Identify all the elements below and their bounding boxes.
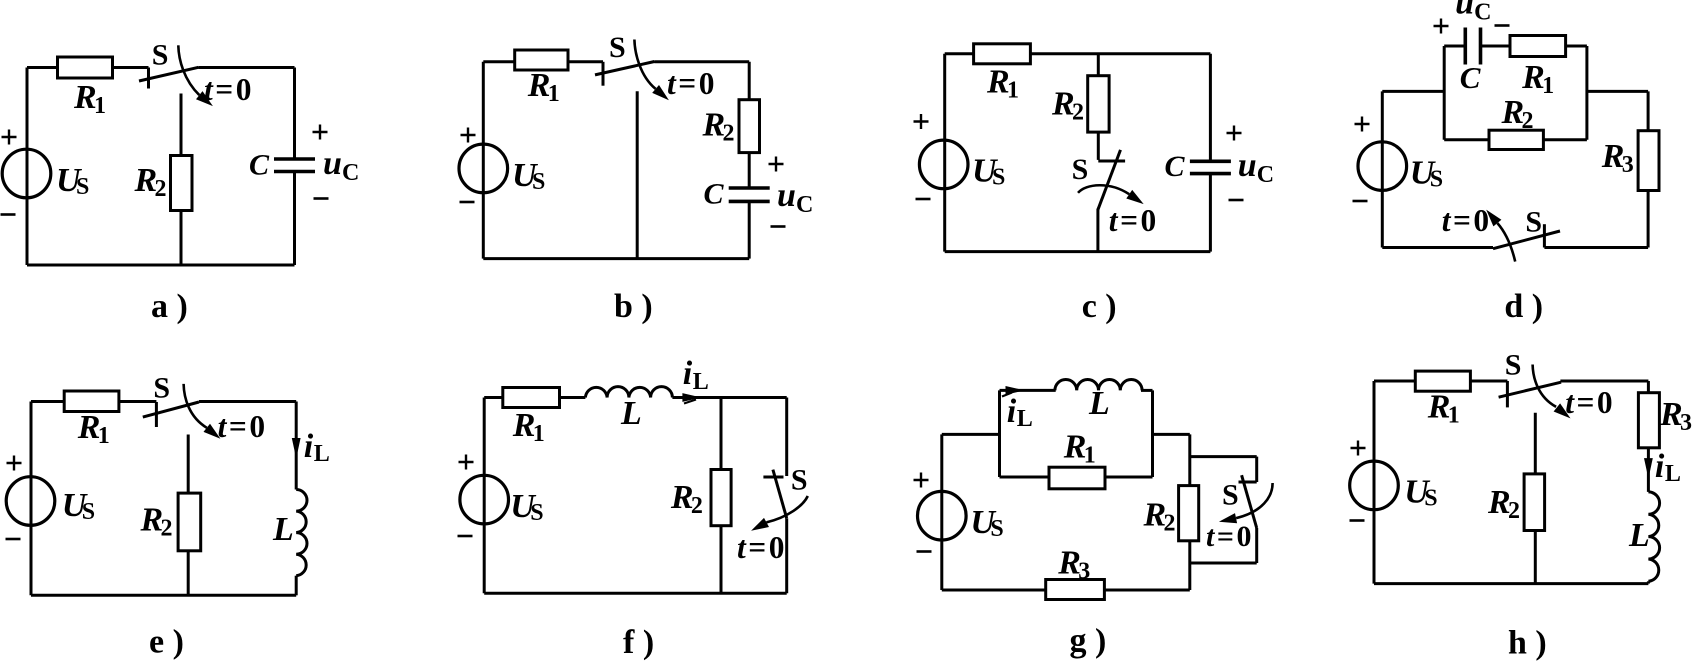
voltage source US xyxy=(919,140,968,189)
svg-text:S: S xyxy=(992,165,1005,191)
switch S blade xyxy=(1493,231,1560,249)
svg-text:C: C xyxy=(1474,0,1491,25)
voltage source US xyxy=(918,491,967,540)
svg-text:S: S xyxy=(1424,486,1437,512)
svg-text:L: L xyxy=(272,511,294,548)
resistor R2 xyxy=(1179,486,1199,541)
current arrow iL xyxy=(682,393,701,402)
svg-text:C: C xyxy=(249,148,270,181)
voltage source US xyxy=(1350,461,1399,510)
switch S actuation arrow xyxy=(766,496,807,522)
wire xyxy=(1444,45,1465,48)
svg-text:1: 1 xyxy=(1542,73,1554,99)
wire xyxy=(293,172,296,266)
svg-text:c ): c ) xyxy=(1082,288,1117,325)
wire xyxy=(482,62,485,259)
wire xyxy=(483,60,603,63)
wire xyxy=(942,589,1190,592)
switch S contact xyxy=(763,476,783,479)
minus polarity mark xyxy=(460,201,475,204)
plus polarity mark xyxy=(914,114,929,129)
wire xyxy=(720,398,723,594)
plus polarity mark xyxy=(1351,441,1366,456)
resistor R1 xyxy=(503,388,560,408)
svg-text:1: 1 xyxy=(533,421,545,447)
svg-text:u: u xyxy=(323,145,342,182)
wire xyxy=(785,398,788,477)
wire xyxy=(199,400,296,403)
circuit h xyxy=(1350,349,1693,662)
wire xyxy=(1097,54,1100,160)
wire xyxy=(945,250,1211,253)
wire xyxy=(1209,54,1212,162)
circuit d xyxy=(1353,0,1660,325)
wire xyxy=(1000,476,1153,479)
resistor R3 xyxy=(1638,393,1659,448)
plus polarity mark xyxy=(461,128,476,143)
wire xyxy=(1374,582,1648,585)
switch S contact xyxy=(155,402,158,427)
svg-text:L: L xyxy=(620,395,642,432)
svg-text:t=0: t=0 xyxy=(1442,203,1489,238)
svg-text:S: S xyxy=(76,174,89,200)
svg-text:b ): b ) xyxy=(614,288,653,325)
wire xyxy=(998,390,1001,477)
minus polarity mark xyxy=(314,197,329,200)
wire xyxy=(1647,581,1650,583)
switch S actuation arrow xyxy=(1236,483,1273,518)
wire xyxy=(1587,90,1648,93)
inductor L xyxy=(296,490,307,576)
switch S blade xyxy=(139,67,199,81)
wire xyxy=(748,201,751,258)
capacitor C xyxy=(1190,161,1231,173)
minus polarity mark xyxy=(1350,519,1365,522)
resistor R2 xyxy=(1088,76,1109,132)
switch S actuation arrow xyxy=(184,384,207,428)
capacitor C xyxy=(729,188,770,201)
minus polarity mark xyxy=(6,538,21,541)
wire xyxy=(1481,45,1587,48)
wire xyxy=(1374,380,1507,383)
svg-text:1: 1 xyxy=(1448,403,1460,429)
switch S actuation arrow xyxy=(1078,185,1129,194)
svg-text:u: u xyxy=(777,177,796,214)
svg-text:L: L xyxy=(1665,461,1681,487)
minus polarity mark xyxy=(1229,199,1244,202)
svg-text:C: C xyxy=(1257,162,1274,188)
wire xyxy=(1141,389,1153,392)
wire xyxy=(1534,413,1537,584)
plus polarity mark xyxy=(1434,19,1449,34)
resistor R1 xyxy=(1510,36,1566,57)
resistor R1 xyxy=(515,50,568,70)
wire xyxy=(483,398,486,594)
wire xyxy=(1443,46,1446,140)
wire xyxy=(1151,390,1154,477)
wire xyxy=(199,66,295,69)
wire xyxy=(1255,528,1258,563)
wire xyxy=(785,518,788,593)
wire xyxy=(672,396,786,399)
wire xyxy=(1560,380,1648,383)
wire xyxy=(1444,138,1587,141)
circuit f xyxy=(458,355,808,661)
svg-text:S: S xyxy=(82,499,95,525)
minus polarity mark xyxy=(458,535,473,538)
inductor L xyxy=(1648,492,1659,581)
svg-text:1: 1 xyxy=(1007,77,1019,103)
plus polarity mark xyxy=(313,125,328,140)
minus polarity mark xyxy=(916,198,931,201)
resistor R2 xyxy=(739,100,760,153)
inductor L xyxy=(585,387,672,398)
voltage source US xyxy=(6,477,55,526)
svg-text:L: L xyxy=(693,369,709,395)
wire xyxy=(1096,209,1099,252)
plus polarity mark xyxy=(1227,126,1242,141)
svg-text:C: C xyxy=(704,178,725,211)
plus polarity mark xyxy=(1355,117,1370,132)
svg-text:i: i xyxy=(683,355,693,392)
wire xyxy=(748,62,751,188)
circuit e xyxy=(6,372,330,661)
minus polarity mark xyxy=(1353,200,1368,203)
wire xyxy=(1381,91,1384,247)
wire xyxy=(1382,90,1444,93)
resistor R2 xyxy=(178,493,201,551)
resistor R1 xyxy=(1049,467,1105,489)
switch S blade xyxy=(1098,150,1121,210)
switch S contact xyxy=(1543,224,1546,247)
switch S actuation arrow xyxy=(1497,223,1515,262)
svg-text:L: L xyxy=(1628,517,1650,554)
wire xyxy=(1382,246,1493,249)
svg-text:2: 2 xyxy=(161,516,173,542)
voltage source US xyxy=(1358,142,1407,191)
svg-text:g ): g ) xyxy=(1070,623,1107,660)
minus polarity mark xyxy=(1,213,16,216)
resistor R3 xyxy=(1638,131,1659,191)
voltage source US xyxy=(2,149,51,198)
svg-text:t=0: t=0 xyxy=(1206,520,1251,553)
svg-text:t=0: t=0 xyxy=(1109,203,1156,238)
svg-text:t=0: t=0 xyxy=(204,72,251,107)
svg-text:1: 1 xyxy=(94,93,106,119)
minus polarity mark xyxy=(1495,24,1510,27)
voltage source US xyxy=(459,144,508,193)
switch S contact xyxy=(1098,160,1125,163)
capacitor C xyxy=(1465,28,1480,65)
switch S contact xyxy=(602,62,605,86)
wire xyxy=(1000,389,1056,392)
switch S contact xyxy=(147,68,150,89)
svg-text:S: S xyxy=(152,39,169,72)
svg-text:S: S xyxy=(1430,166,1443,192)
wire xyxy=(295,576,298,596)
wire xyxy=(484,396,585,399)
resistor R2 xyxy=(1489,130,1543,149)
wire xyxy=(484,592,787,595)
svg-text:1: 1 xyxy=(1084,443,1096,469)
wire xyxy=(1647,381,1650,492)
svg-text:C: C xyxy=(1165,150,1186,183)
svg-text:u: u xyxy=(1238,147,1257,184)
svg-text:S: S xyxy=(791,464,808,497)
wire xyxy=(483,257,749,260)
wire xyxy=(943,54,946,252)
svg-text:i: i xyxy=(1007,393,1017,430)
wire xyxy=(31,594,296,597)
wire xyxy=(1544,246,1648,249)
wire xyxy=(1209,174,1212,252)
plus polarity mark xyxy=(7,456,22,471)
svg-text:h ): h ) xyxy=(1508,625,1547,662)
svg-text:C: C xyxy=(1460,60,1481,95)
minus polarity mark xyxy=(771,225,786,228)
svg-text:f ): f ) xyxy=(623,624,654,661)
resistor R1 xyxy=(1415,371,1470,391)
wire xyxy=(1373,381,1376,584)
switch S blade xyxy=(773,470,787,519)
svg-text:2: 2 xyxy=(1522,108,1534,134)
switch S blade xyxy=(1499,382,1562,397)
wire xyxy=(1255,457,1258,482)
minus polarity mark xyxy=(917,550,932,553)
wire xyxy=(1190,562,1257,565)
circuit b xyxy=(459,31,813,325)
plus polarity mark xyxy=(914,473,929,488)
wire xyxy=(1153,433,1190,436)
wire xyxy=(293,68,296,160)
svg-text:2: 2 xyxy=(691,493,703,519)
svg-text:S: S xyxy=(532,169,545,195)
capacitor C xyxy=(274,159,315,172)
svg-text:3: 3 xyxy=(1680,410,1692,436)
wire xyxy=(1188,434,1191,590)
svg-text:L: L xyxy=(1088,385,1110,422)
inductor L xyxy=(1055,379,1142,390)
switch S actuation arrow xyxy=(178,45,199,95)
wire xyxy=(1585,46,1588,140)
svg-text:S: S xyxy=(990,516,1003,542)
voltage source US xyxy=(460,475,509,524)
svg-text:S: S xyxy=(1222,479,1239,512)
svg-text:t=0: t=0 xyxy=(218,409,265,444)
svg-text:2: 2 xyxy=(1164,511,1176,537)
svg-text:2: 2 xyxy=(1072,100,1084,126)
resistor R1 xyxy=(64,391,119,412)
wire xyxy=(1190,455,1257,458)
svg-text:t=0: t=0 xyxy=(667,66,714,101)
switch S blade xyxy=(1242,475,1257,528)
current arrow iL xyxy=(1006,386,1025,395)
svg-text:d ): d ) xyxy=(1504,288,1543,325)
resistor R1 xyxy=(58,57,113,78)
wire xyxy=(26,68,29,266)
circuit a xyxy=(1,39,360,325)
resistor R2 xyxy=(171,156,193,211)
circuit g xyxy=(914,379,1273,659)
svg-text:3: 3 xyxy=(1078,558,1090,584)
svg-text:L: L xyxy=(1017,406,1033,432)
wire xyxy=(1647,91,1650,247)
svg-text:C: C xyxy=(342,160,359,186)
plus polarity mark xyxy=(2,130,17,145)
switch S contact xyxy=(1506,381,1509,407)
switch S contact xyxy=(1239,481,1257,484)
svg-text:S: S xyxy=(153,372,170,405)
svg-text:2: 2 xyxy=(155,176,167,202)
svg-text:2: 2 xyxy=(723,121,735,147)
plus polarity mark xyxy=(769,157,784,172)
circuit c xyxy=(914,44,1275,325)
svg-text:i: i xyxy=(304,428,314,465)
wire xyxy=(942,433,1000,436)
switch S actuation arrow xyxy=(1533,365,1557,407)
wire xyxy=(945,52,1211,55)
svg-text:i: i xyxy=(1655,448,1665,485)
wire xyxy=(31,400,156,403)
current arrow iL xyxy=(292,438,301,459)
wire xyxy=(655,60,750,63)
resistor R3 xyxy=(1046,580,1105,600)
svg-text:1: 1 xyxy=(98,423,110,449)
svg-text:e ): e ) xyxy=(149,624,184,661)
svg-text:t=0: t=0 xyxy=(1565,385,1612,420)
svg-text:S: S xyxy=(1072,153,1089,186)
svg-text:u: u xyxy=(1455,0,1474,21)
svg-text:1: 1 xyxy=(548,81,560,107)
switch S actuation arrow xyxy=(634,40,655,89)
resistor R1 xyxy=(974,44,1031,64)
svg-text:3: 3 xyxy=(1622,152,1634,178)
svg-text:S: S xyxy=(1525,206,1542,239)
svg-text:S: S xyxy=(530,500,543,526)
switch S blade xyxy=(595,62,655,75)
wire xyxy=(940,434,943,590)
resistor R2 xyxy=(711,470,731,526)
svg-text:S: S xyxy=(1505,349,1522,382)
wire xyxy=(30,402,33,596)
svg-text:a ): a ) xyxy=(151,288,188,325)
switch S blade xyxy=(143,402,199,417)
wire xyxy=(636,91,639,258)
wire xyxy=(27,66,149,69)
current arrow iL xyxy=(1644,458,1653,479)
svg-text:S: S xyxy=(609,31,626,64)
svg-text:t=0: t=0 xyxy=(737,530,784,565)
plus polarity mark xyxy=(459,455,474,470)
wire xyxy=(180,94,183,266)
resistor R2 xyxy=(1524,474,1545,531)
wire xyxy=(295,402,298,490)
wire xyxy=(27,264,295,267)
wire xyxy=(187,435,190,596)
svg-text:C: C xyxy=(796,192,813,218)
svg-text:L: L xyxy=(314,441,330,467)
svg-text:2: 2 xyxy=(1508,498,1520,524)
